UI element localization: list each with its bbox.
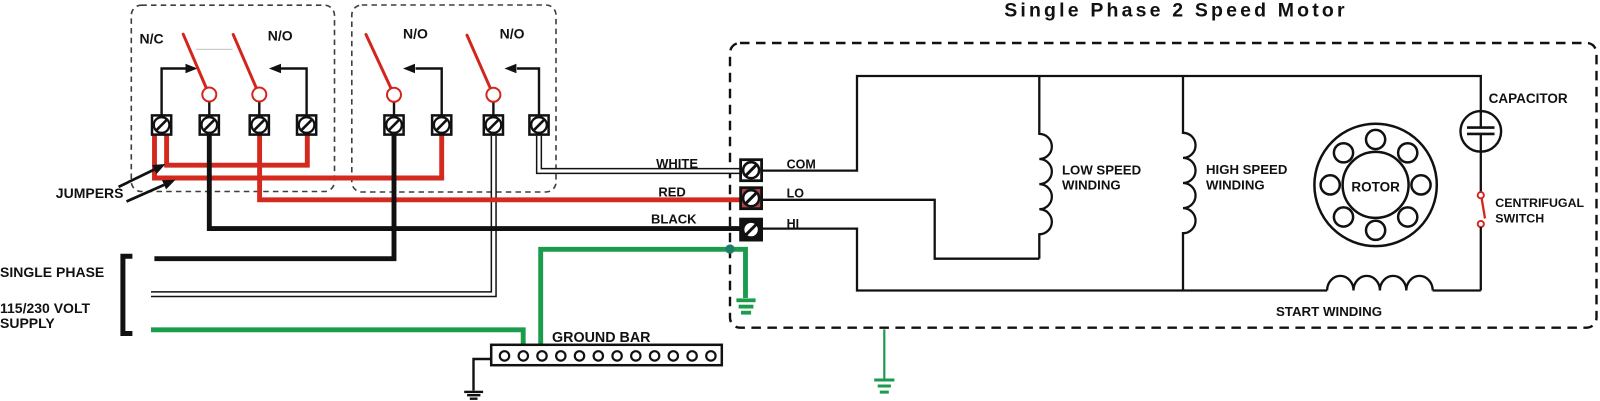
svg-text:RED: RED [658, 184, 685, 199]
svg-text:WINDING: WINDING [1206, 177, 1265, 192]
svg-text:WHITE: WHITE [656, 156, 698, 171]
svg-text:115/230 VOLT: 115/230 VOLT [0, 300, 90, 316]
svg-text:SINGLE PHASE: SINGLE PHASE [0, 264, 104, 280]
svg-text:SWITCH: SWITCH [1495, 211, 1544, 225]
svg-text:N/O: N/O [403, 26, 428, 42]
svg-text:COM: COM [787, 158, 816, 172]
svg-text:N/C: N/C [140, 31, 164, 47]
svg-text:HIGH SPEED: HIGH SPEED [1206, 162, 1287, 177]
svg-text:LO: LO [787, 187, 805, 201]
svg-text:N/O: N/O [268, 28, 293, 44]
svg-text:JUMPERS: JUMPERS [56, 185, 124, 201]
svg-text:CAPACITOR: CAPACITOR [1489, 91, 1568, 106]
svg-text:CENTRIFUGAL: CENTRIFUGAL [1495, 196, 1584, 210]
svg-text:BLACK: BLACK [651, 212, 697, 227]
svg-text:GROUND BAR: GROUND BAR [552, 330, 651, 346]
svg-text:LOW SPEED: LOW SPEED [1062, 162, 1141, 177]
svg-text:ROTOR: ROTOR [1351, 180, 1400, 195]
svg-text:N/O: N/O [500, 26, 525, 42]
svg-text:SUPPLY: SUPPLY [0, 315, 55, 331]
svg-text:Single Phase 2 Speed Motor: Single Phase 2 Speed Motor [1004, 0, 1348, 21]
svg-text:START WINDING: START WINDING [1276, 304, 1382, 319]
svg-text:HI: HI [787, 217, 800, 231]
svg-text:WINDING: WINDING [1062, 178, 1121, 193]
